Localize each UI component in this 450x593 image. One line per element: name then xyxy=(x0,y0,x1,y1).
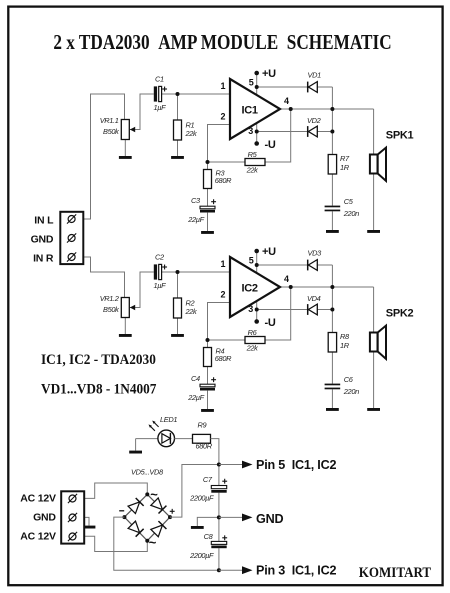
svg-text:C4: C4 xyxy=(191,374,200,383)
svg-text:VR1.2: VR1.2 xyxy=(100,294,119,303)
svg-text:1µF: 1µF xyxy=(154,281,167,290)
svg-text:C2: C2 xyxy=(155,253,164,262)
svg-text:VD3: VD3 xyxy=(308,249,323,258)
svg-text:C6: C6 xyxy=(344,375,354,384)
svg-text:KOMITART: KOMITART xyxy=(359,564,432,581)
svg-text:~: ~ xyxy=(149,535,157,550)
svg-text:22k: 22k xyxy=(185,307,198,316)
svg-text:2200µF: 2200µF xyxy=(189,493,214,502)
svg-text:Pin 5 IC1, IC2: Pin 5 IC1, IC2 xyxy=(256,458,336,472)
svg-text:VD4: VD4 xyxy=(307,294,321,303)
svg-text:-U: -U xyxy=(265,139,276,151)
svg-text:VD2: VD2 xyxy=(307,116,321,125)
svg-text:680R: 680R xyxy=(196,442,213,451)
svg-text:-U: -U xyxy=(265,317,276,329)
svg-text:1µF: 1µF xyxy=(154,103,167,112)
svg-text:IC1, IC2 - TDA2030: IC1, IC2 - TDA2030 xyxy=(41,351,156,368)
svg-text:220n: 220n xyxy=(343,387,359,396)
svg-text:22k: 22k xyxy=(185,129,198,138)
svg-text:22µF: 22µF xyxy=(187,393,204,402)
svg-text:C1: C1 xyxy=(155,75,164,84)
svg-text:VD5...VD8: VD5...VD8 xyxy=(131,468,164,477)
svg-text:22k: 22k xyxy=(246,343,259,352)
svg-text:22k: 22k xyxy=(246,165,259,174)
svg-text:680R: 680R xyxy=(215,354,232,363)
svg-text:1: 1 xyxy=(220,81,225,91)
svg-text:C3: C3 xyxy=(191,196,201,205)
svg-text:5: 5 xyxy=(249,255,254,265)
svg-text:2: 2 xyxy=(220,112,225,122)
svg-text:2200µF: 2200µF xyxy=(189,551,214,560)
svg-text:VD1...VD8 - 1N4007: VD1...VD8 - 1N4007 xyxy=(41,381,156,398)
svg-text:B50k: B50k xyxy=(103,127,119,136)
svg-text:680R: 680R xyxy=(215,176,232,185)
svg-text:~: ~ xyxy=(150,487,158,502)
svg-text:IC1: IC1 xyxy=(242,104,258,116)
svg-text:R8: R8 xyxy=(340,332,350,341)
svg-text:GND: GND xyxy=(256,512,283,526)
svg-text:R7: R7 xyxy=(340,154,350,163)
svg-text:SPK2: SPK2 xyxy=(386,307,414,319)
svg-text:C8: C8 xyxy=(204,532,214,541)
svg-text:IN L: IN L xyxy=(34,214,54,226)
svg-text:3: 3 xyxy=(248,126,253,136)
svg-text:GND: GND xyxy=(33,512,56,524)
svg-text:220n: 220n xyxy=(343,209,359,218)
svg-text:5: 5 xyxy=(249,77,254,87)
svg-text:B50k: B50k xyxy=(103,305,119,314)
svg-text:AC 12V: AC 12V xyxy=(20,493,56,505)
svg-text:4: 4 xyxy=(284,96,289,106)
svg-text:R9: R9 xyxy=(198,420,207,429)
svg-text:1R: 1R xyxy=(340,163,350,172)
svg-text:22µF: 22µF xyxy=(187,215,204,224)
svg-text:1R: 1R xyxy=(340,341,350,350)
svg-text:SPK1: SPK1 xyxy=(386,129,414,141)
svg-text:AC 12V: AC 12V xyxy=(20,531,56,543)
svg-text:3: 3 xyxy=(248,304,253,314)
svg-text:VR1.1: VR1.1 xyxy=(100,116,119,125)
svg-text:IN R: IN R xyxy=(33,253,54,265)
svg-text:4: 4 xyxy=(284,274,289,284)
svg-text:GND: GND xyxy=(31,233,54,245)
svg-text:VD1: VD1 xyxy=(308,71,322,80)
svg-text:LED1: LED1 xyxy=(160,415,177,424)
svg-text:2 x TDA2030 AMP MODULE SCHEM: 2 x TDA2030 AMP MODULE SCHEMATIC xyxy=(53,32,391,55)
svg-text:Pin 3 IC1, IC2: Pin 3 IC1, IC2 xyxy=(256,564,336,578)
svg-text:+U: +U xyxy=(262,246,276,258)
svg-text:IC2: IC2 xyxy=(242,282,258,294)
svg-text:2: 2 xyxy=(220,290,225,300)
svg-text:R6: R6 xyxy=(248,328,258,337)
svg-text:R5: R5 xyxy=(248,150,258,159)
svg-text:C5: C5 xyxy=(344,197,354,206)
svg-text:1: 1 xyxy=(220,259,225,269)
svg-text:+U: +U xyxy=(262,68,276,80)
svg-text:C7: C7 xyxy=(203,475,213,484)
